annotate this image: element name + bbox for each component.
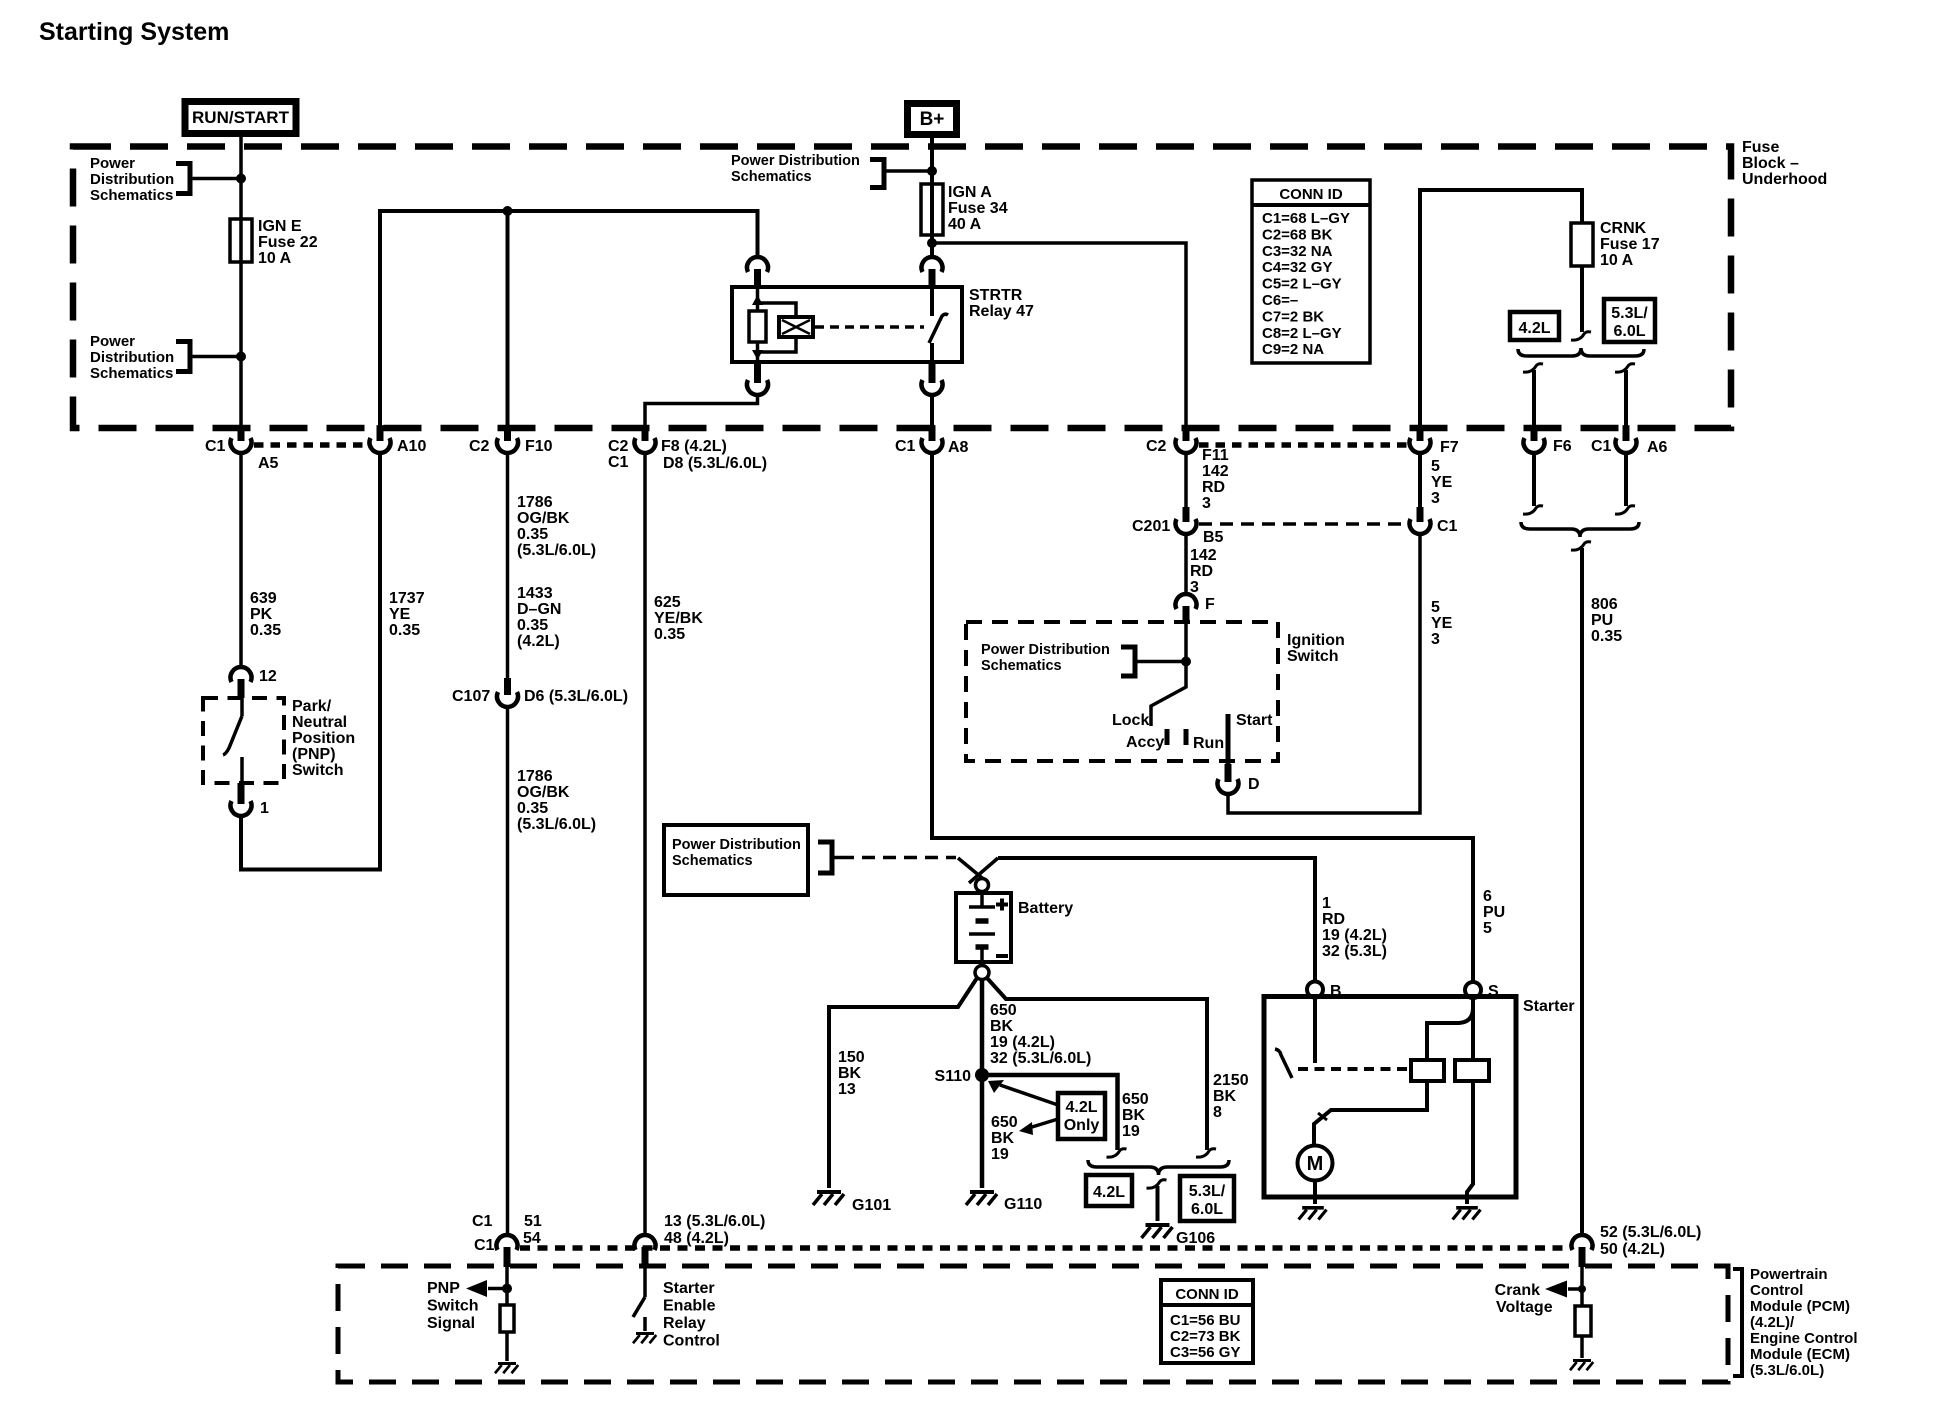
svg-text:BK: BK [990, 1018, 1014, 1035]
svg-text:Accy: Accy [1126, 734, 1164, 751]
svg-text:1433: 1433 [517, 585, 553, 602]
contact: Start with blade down to D [1226, 714, 1231, 764]
node: ignition switch junction [1181, 657, 1191, 667]
wire 625 YE/BK: F8 down to PCM 13/48 [645, 452, 703, 1236]
svg-text:Switch: Switch [292, 762, 344, 779]
node: junction at F10 drop [503, 206, 513, 216]
battery positive terminal circle [976, 879, 989, 892]
wire 2150 BK 8 [987, 978, 1249, 1157]
svg-text:Power Distribution: Power Distribution [672, 837, 801, 853]
svg-text:6.0L: 6.0L [1613, 323, 1645, 340]
wire 1786 OG/BK lower: C107 down to PCM C1 [508, 706, 597, 1236]
svg-text:5: 5 [1431, 599, 1440, 616]
svg-text:BK: BK [1213, 1088, 1237, 1105]
svg-text:D: D [1248, 776, 1260, 793]
svg-text:Power: Power [90, 333, 135, 350]
svg-text:C3=32 NA: C3=32 NA [1262, 243, 1333, 260]
svg-text:150: 150 [838, 1049, 865, 1066]
svg-text:8: 8 [1213, 1104, 1222, 1121]
svg-text:F: F [1205, 596, 1215, 613]
svg-text:Signal: Signal [427, 1315, 475, 1332]
svg-text:Starting System: Starting System [39, 18, 229, 46]
svg-text:4.2L: 4.2L [1093, 1184, 1125, 1201]
svg-text:1: 1 [260, 800, 269, 817]
svg-text:0.35: 0.35 [517, 526, 548, 543]
svg-text:5: 5 [1483, 920, 1492, 937]
svg-text:RD: RD [1322, 911, 1345, 928]
svg-text:5: 5 [1431, 458, 1440, 475]
svg-text:Fuse 17: Fuse 17 [1600, 236, 1660, 253]
svg-text:BK: BK [838, 1065, 862, 1082]
wire: motor to ground [1313, 1181, 1317, 1204]
PNP switch blade and contact [223, 698, 242, 783]
svg-text:10 A: 10 A [258, 250, 292, 267]
svg-text:Distribution: Distribution [90, 349, 174, 366]
connector C2/F11 [1183, 425, 1190, 441]
wire+ground (crank voltage) [1570, 1336, 1593, 1370]
dotted link F11-F7 [1199, 442, 1407, 448]
svg-text:C2=73 BK: C2=73 BK [1170, 1328, 1241, 1345]
wire: F6 below connector with hook [1523, 452, 1543, 514]
svg-text:Starter: Starter [1523, 998, 1575, 1015]
svg-text:142: 142 [1202, 463, 1229, 480]
wire: battery positive to B terminal [998, 858, 1315, 981]
svg-text:13: 13 [838, 1081, 856, 1098]
svg-text:50 (4.2L): 50 (4.2L) [1600, 1241, 1665, 1258]
splice S110 [935, 1068, 989, 1085]
wire 650 BK 19 right branch [982, 1075, 1149, 1157]
svg-text:F6: F6 [1553, 438, 1572, 455]
svg-text:650: 650 [990, 1002, 1017, 1019]
svg-text:D6 (5.3L/6.0L): D6 (5.3L/6.0L) [524, 688, 628, 705]
connector C2/F10 [504, 425, 511, 441]
svg-text:C3=56 GY: C3=56 GY [1170, 1344, 1240, 1361]
resistor (crank voltage) [1575, 1306, 1591, 1336]
wire: D to C1 riser [1228, 533, 1420, 813]
label: STRTR Relay 47 [969, 287, 1034, 320]
brace: engine split to G106 [1088, 1160, 1229, 1175]
contact tick: Accy [1165, 729, 1170, 745]
connector bump: relay coil top [754, 269, 761, 287]
wire 5 YE upper: F7 down to C1 [1420, 452, 1453, 508]
svg-text:Underhood: Underhood [1742, 171, 1827, 188]
svg-text:32 (5.3L/6.0L): 32 (5.3L/6.0L) [990, 1050, 1091, 1067]
label: Ignition Switch [1287, 632, 1345, 665]
svg-text:BK: BK [1122, 1107, 1146, 1124]
svg-text:0.35: 0.35 [250, 622, 281, 639]
motor M circle [1298, 1146, 1333, 1181]
dashed wire to battery positive [841, 856, 956, 860]
svg-text:Powertrain: Powertrain [1750, 1266, 1828, 1283]
ground (starter motor) [1302, 1206, 1324, 1210]
solenoid contact rect 2 [1455, 1060, 1489, 1081]
wire: F6 drop with hook [1523, 364, 1543, 440]
svg-text:2150: 2150 [1213, 1072, 1249, 1089]
svg-text:C4=32 GY: C4=32 GY [1262, 259, 1332, 276]
svg-text:Power: Power [90, 155, 135, 172]
wire: relay coil output to F8 [645, 394, 758, 440]
connector bump: relay switch bottom [929, 363, 936, 383]
wire: CRNK feed horizontal [1420, 190, 1582, 440]
svg-text:0.35: 0.35 [517, 800, 548, 817]
svg-text:B5: B5 [1203, 529, 1224, 546]
svg-text:19 (4.2L): 19 (4.2L) [1322, 927, 1387, 944]
svg-text:3: 3 [1431, 490, 1440, 507]
label: Powertrain Control Module [1733, 1266, 1858, 1379]
relay actuator box with X [779, 317, 813, 337]
svg-text:C201: C201 [1132, 518, 1170, 535]
svg-text:YE: YE [1431, 474, 1453, 491]
relay STRTR Relay 47 box [732, 287, 962, 362]
brace: CRNK split [1518, 348, 1644, 356]
svg-text:0.35: 0.35 [389, 622, 420, 639]
connector bump: relay switch top [929, 269, 936, 287]
svg-text:C107: C107 [452, 688, 490, 705]
table CONN ID (PCM) [1161, 1280, 1253, 1363]
svg-text:625: 625 [654, 594, 681, 611]
svg-text:3: 3 [1431, 631, 1440, 648]
wire+ground (PNP signal) [495, 1332, 518, 1373]
solenoid contact rect 1 [1411, 1060, 1444, 1081]
dotted link C1-A10 [254, 442, 368, 448]
ground G106 [1142, 1225, 1216, 1247]
svg-text:32 (5.3L): 32 (5.3L) [1322, 943, 1387, 960]
box 4.2L (g106) [1086, 1175, 1132, 1206]
svg-text:C8=2 L–GY: C8=2 L–GY [1262, 325, 1342, 342]
resistor (PNP signal) [500, 1305, 514, 1332]
svg-text:(5.3L/6.0L): (5.3L/6.0L) [1750, 1362, 1824, 1379]
svg-text:Schematics: Schematics [90, 365, 173, 382]
fuse IGN A Fuse 34 [921, 184, 943, 235]
svg-text:CONN ID: CONN ID [1279, 186, 1343, 203]
svg-text:C9=2 NA: C9=2 NA [1262, 341, 1324, 358]
svg-text:CONN ID: CONN ID [1175, 1286, 1239, 1303]
wire: F10 drop [506, 211, 510, 440]
starter S wire branch to pull-in contact [1427, 998, 1473, 1060]
ground (starter solenoid) [1456, 1206, 1478, 1210]
connector 1 (PNP) [231, 783, 269, 817]
label+bracket: Power Distribution Schematics (lower left) [90, 333, 241, 382]
svg-text:(4.2L)/: (4.2L)/ [1750, 1314, 1795, 1331]
svg-text:Starter: Starter [663, 1280, 715, 1297]
dotted PCM connector line [520, 1245, 1568, 1251]
svg-text:C1: C1 [1591, 438, 1612, 455]
ignition switch dashed box [966, 622, 1278, 761]
svg-text:C6=–: C6=– [1262, 292, 1298, 309]
label+bracket: Power Distribution Schematics (upper left) [90, 155, 241, 204]
wire: A6 below connector with hook [1615, 452, 1635, 514]
svg-text:51: 51 [524, 1213, 542, 1230]
svg-text:Only: Only [1064, 1117, 1100, 1134]
svg-text:Relay: Relay [663, 1315, 706, 1332]
svg-text:Distribution: Distribution [90, 171, 174, 188]
svg-text:Relay 47: Relay 47 [969, 303, 1034, 320]
PCM dashed box [338, 1266, 1728, 1382]
svg-text:C7=2 BK: C7=2 BK [1262, 308, 1324, 325]
svg-text:5.3L/: 5.3L/ [1189, 1183, 1226, 1200]
connector A10 [377, 425, 384, 441]
svg-text:1: 1 [1322, 895, 1331, 912]
svg-text:IGN E: IGN E [258, 218, 302, 235]
connector C107 / D6 [452, 678, 628, 707]
connector C1/A6 [1623, 425, 1630, 441]
label: Park/Neutral Position (PNP) Switch [292, 698, 355, 779]
wire: F into switch junction [1184, 622, 1188, 662]
connector C1 51/54 (PCM) [472, 1213, 542, 1267]
svg-text:D–GN: D–GN [517, 601, 561, 618]
svg-text:3: 3 [1202, 495, 1211, 512]
svg-text:Schematics: Schematics [90, 187, 173, 204]
wire: B+ feed down to relay switch [930, 138, 934, 256]
svg-text:C2=68 BK: C2=68 BK [1262, 226, 1333, 243]
svg-text:0.35: 0.35 [654, 626, 685, 643]
terminal RUN/START [185, 102, 296, 134]
svg-text:YE: YE [389, 606, 411, 623]
connector F7 [1417, 425, 1424, 441]
svg-text:806: 806 [1591, 596, 1618, 613]
svg-text:1737: 1737 [389, 590, 425, 607]
wire 5 YE lower label [1431, 599, 1453, 648]
starter enable relay control branch [633, 1267, 720, 1350]
svg-text:C1: C1 [608, 454, 629, 471]
svg-text:G110: G110 [1004, 1196, 1042, 1213]
svg-text:C1: C1 [895, 438, 916, 455]
wire: CRNK fuse output with hook [1580, 266, 1584, 332]
svg-text:C2: C2 [1146, 438, 1167, 455]
label: Fuse Block - Underhood [1742, 139, 1827, 188]
fuse IGN E Fuse 22 [230, 219, 252, 262]
svg-text:Module (ECM): Module (ECM) [1750, 1346, 1850, 1363]
box 4.2L Only with arrows [988, 1080, 1105, 1139]
PNP switch dashed box [203, 698, 284, 783]
svg-text:C5=2 L–GY: C5=2 L–GY [1262, 276, 1342, 293]
svg-text:C1: C1 [474, 1237, 495, 1254]
svg-text:PK: PK [250, 606, 273, 623]
wire: junction to F11 drop [932, 243, 1186, 440]
starter box [1264, 997, 1516, 1198]
label 1 RD [1322, 895, 1387, 960]
relay switch contact and blade [929, 287, 948, 362]
wire: horizontal feed to A10/F10 and relay coil [380, 211, 758, 440]
svg-text:Switch: Switch [427, 1298, 479, 1315]
svg-text:48 (4.2L): 48 (4.2L) [664, 1230, 729, 1247]
svg-text:C1=56 BU: C1=56 BU [1170, 1312, 1240, 1329]
svg-text:G101: G101 [852, 1197, 891, 1214]
terminal B+ [908, 104, 957, 135]
svg-text:RUN/START: RUN/START [192, 108, 290, 127]
svg-text:Neutral: Neutral [292, 714, 347, 731]
svg-text:YE/BK: YE/BK [654, 610, 703, 627]
dashed actuator link (starter) [1298, 1067, 1409, 1071]
svg-text:A6: A6 [1647, 439, 1668, 456]
svg-text:RD: RD [1202, 479, 1225, 496]
svg-text:C1: C1 [472, 1213, 493, 1230]
svg-text:0.35: 0.35 [1591, 628, 1622, 645]
svg-text:F11: F11 [1202, 447, 1229, 464]
dashed actuator link in relay [815, 325, 924, 329]
svg-text:1786: 1786 [517, 494, 553, 511]
crossed wires at battery positive [958, 858, 998, 883]
svg-text:(5.3L/6.0L): (5.3L/6.0L) [517, 542, 596, 559]
starter B contact wire [1313, 997, 1317, 1063]
svg-text:Power Distribution: Power Distribution [981, 642, 1110, 658]
connector 12 (PNP) [231, 667, 277, 698]
svg-text:A8: A8 [948, 439, 969, 456]
svg-text:Crank: Crank [1495, 1282, 1540, 1299]
svg-text:Fuse 22: Fuse 22 [258, 234, 318, 251]
wire 150 BK to G101 [829, 978, 977, 1188]
svg-text:Ignition: Ignition [1287, 632, 1345, 649]
connector bump: relay coil bottom [754, 363, 761, 383]
svg-text:RD: RD [1190, 563, 1213, 580]
label+bracket: Power Distribution Schematics (ignition) [981, 642, 1186, 676]
svg-text:0.35: 0.35 [517, 617, 548, 634]
brace: F6/A6 merge [1521, 522, 1639, 537]
svg-text:B+: B+ [920, 109, 945, 130]
wire: relay switch output to A8 [930, 394, 934, 440]
svg-text:Module (PCM): Module (PCM) [1750, 1298, 1850, 1315]
battery symbol [956, 891, 1011, 966]
box: Power Distribution Schematics (battery) [664, 825, 841, 895]
svg-text:S110: S110 [935, 1068, 972, 1085]
wire 1786 OG/BK upper: F10 down to C107 [508, 452, 597, 681]
svg-text:YE: YE [1431, 615, 1453, 632]
node: junction on IGN E feed (upper) [236, 174, 246, 184]
svg-text:C2: C2 [608, 438, 629, 455]
svg-text:IGN A: IGN A [948, 184, 992, 201]
svg-text:52 (5.3L/6.0L): 52 (5.3L/6.0L) [1600, 1224, 1701, 1241]
wire: RUN/START down through fuse block to C1 connector [239, 135, 243, 440]
label+bracket: Power Distribution Schematics (at B+) [731, 153, 932, 188]
connector F6 [1531, 425, 1538, 441]
svg-text:M: M [1307, 1153, 1324, 1175]
svg-text:5.3L/: 5.3L/ [1611, 305, 1648, 322]
svg-text:PU: PU [1591, 612, 1613, 629]
svg-text:54: 54 [523, 1230, 541, 1247]
svg-text:C1: C1 [1437, 518, 1458, 535]
svg-text:Start: Start [1236, 712, 1273, 729]
terminal circle S [1465, 982, 1499, 1000]
svg-text:Schematics: Schematics [672, 853, 753, 869]
svg-text:(4.2L): (4.2L) [517, 633, 560, 650]
svg-text:13 (5.3L/6.0L): 13 (5.3L/6.0L) [664, 1213, 765, 1230]
wire 639 PK: C1/A5 down to PNP 12 [241, 452, 281, 668]
svg-text:650: 650 [991, 1114, 1018, 1131]
connector C1/A5 [238, 425, 245, 441]
battery negative terminal circle [975, 966, 989, 980]
connector C1/A8 [929, 425, 936, 441]
terminal circle B [1307, 982, 1342, 1001]
svg-text:Block –: Block – [1742, 155, 1799, 172]
connector D [1218, 764, 1260, 794]
connector 13/48 (PCM) [635, 1213, 766, 1267]
svg-text:F7: F7 [1440, 439, 1459, 456]
svg-text:Position: Position [292, 730, 355, 747]
svg-text:40 A: 40 A [948, 216, 982, 233]
svg-text:OG/BK: OG/BK [517, 510, 570, 527]
dashed link C201-C1 [1199, 522, 1407, 526]
svg-text:G106: G106 [1176, 1230, 1215, 1247]
wire to G106 with hook [1147, 1180, 1167, 1221]
svg-text:10 A: 10 A [1600, 252, 1634, 269]
svg-text:Enable: Enable [663, 1298, 716, 1315]
svg-text:CRNK: CRNK [1600, 220, 1647, 237]
svg-text:19 (4.2L): 19 (4.2L) [990, 1034, 1055, 1051]
ground G110 [966, 1192, 1042, 1213]
svg-text:19: 19 [991, 1146, 1009, 1163]
svg-text:Control: Control [663, 1333, 720, 1350]
svg-text:12: 12 [259, 668, 277, 685]
svg-text:Lock: Lock [1112, 712, 1149, 729]
svg-text:F10: F10 [525, 438, 553, 455]
relay coil with arrows and energize loop [749, 287, 796, 362]
svg-text:(PNP): (PNP) [292, 746, 336, 763]
table CONN ID (fuse block) [1252, 180, 1370, 363]
svg-text:Battery: Battery [1018, 900, 1073, 917]
ground G101 [813, 1192, 891, 1214]
svg-text:142: 142 [1190, 547, 1217, 564]
starter solenoid blade [1275, 1049, 1292, 1078]
svg-text:STRTR: STRTR [969, 287, 1023, 304]
svg-text:Engine Control: Engine Control [1750, 1330, 1858, 1347]
contact tick: Run [1184, 729, 1189, 745]
svg-text:Switch: Switch [1287, 648, 1339, 665]
connector C201/B5 [1132, 507, 1224, 546]
svg-text:4.2L: 4.2L [1518, 320, 1550, 337]
svg-text:(5.3L/6.0L): (5.3L/6.0L) [517, 816, 596, 833]
connector C2C1/F8-D8 [642, 425, 649, 441]
svg-text:OG/BK: OG/BK [517, 784, 570, 801]
node: junction on IGN E feed (lower) [236, 352, 246, 362]
svg-text:Control: Control [1750, 1282, 1803, 1299]
wire 806 PU down to PCM [1571, 542, 1622, 1236]
svg-text:4.2L: 4.2L [1065, 1099, 1097, 1116]
svg-text:C2: C2 [469, 438, 490, 455]
node: junction below IGN A fuse [927, 238, 937, 248]
wire: A6 drop with hook [1615, 364, 1635, 440]
node: junction below B+ [927, 166, 937, 176]
connector 52/50 (PCM) [1572, 1224, 1702, 1267]
svg-text:A10: A10 [397, 438, 426, 455]
wire 1737 YE: A10 down and left to PNP return [241, 452, 425, 870]
PNP switch signal branch [427, 1267, 512, 1332]
wire: contact1 to motor with tick [1314, 1081, 1427, 1145]
svg-text:C1=68 L–GY: C1=68 L–GY [1262, 210, 1350, 227]
fuse CRNK Fuse 17 [1571, 223, 1593, 266]
svg-text:19: 19 [1122, 1123, 1140, 1140]
svg-text:Voltage: Voltage [1496, 1299, 1553, 1316]
svg-text:Fuse 34: Fuse 34 [948, 200, 1008, 217]
svg-text:Schematics: Schematics [981, 658, 1062, 674]
box 4.2L (crnk) [1510, 312, 1559, 340]
wire: A8 down, across to S terminal [932, 452, 1505, 981]
svg-text:F8 (4.2L): F8 (4.2L) [661, 438, 727, 455]
svg-text:6.0L: 6.0L [1191, 1201, 1223, 1218]
ignition switch blade to Lock [1151, 662, 1186, 726]
box 5.3L/6.0L (crnk) [1604, 299, 1655, 342]
svg-text:6: 6 [1483, 888, 1492, 905]
svg-text:D8 (5.3L/6.0L): D8 (5.3L/6.0L) [663, 455, 767, 472]
box 5.3L/6.0L (g106) [1180, 1176, 1234, 1221]
svg-text:Park/: Park/ [292, 698, 332, 715]
svg-text:BK: BK [991, 1130, 1015, 1147]
starter S wire main through contact 2 to ground [1467, 998, 1473, 1204]
svg-text:650: 650 [1122, 1091, 1149, 1108]
svg-text:PU: PU [1483, 904, 1505, 921]
connector C1 (below F7) [1410, 507, 1458, 535]
crank voltage branch [1495, 1267, 1586, 1316]
fuse block underhood dashed boundary [73, 147, 1731, 429]
